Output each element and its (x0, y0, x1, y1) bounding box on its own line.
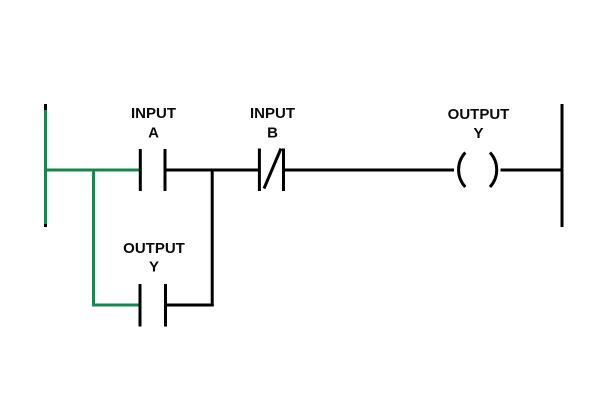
wire branch contact to riser (166, 304, 214, 307)
wire INPUT B to coil (284, 169, 455, 172)
wire branch to OUTPUT Y contact (green) (92, 304, 140, 307)
contact OUTPUT Y (branch seal-in) (140, 284, 166, 327)
svg-text:Y: Y (473, 125, 483, 142)
contact INPUT A (140, 149, 165, 191)
svg-text:A: A (148, 125, 159, 142)
label INPUT B (250, 105, 295, 142)
contact INPUT B (normally closed) (259, 149, 283, 192)
wire coil to right rail (501, 169, 564, 172)
wire branch riser to main rung (211, 170, 214, 307)
svg-text:Y: Y (149, 259, 159, 276)
left power rail energized highlight (green) (44, 110, 47, 224)
coil OUTPUT Y (459, 153, 497, 188)
wire rail to INPUT A (green) (44, 169, 140, 172)
label INPUT A (131, 105, 176, 142)
label OUTPUT Y (coil) (448, 106, 510, 142)
right power rail (561, 104, 564, 227)
svg-text:INPUT: INPUT (250, 105, 295, 122)
svg-text:OUTPUT: OUTPUT (123, 240, 185, 257)
left power rail (black under-layer) (44, 104, 47, 227)
svg-text:OUTPUT: OUTPUT (448, 106, 510, 123)
svg-text:B: B (267, 125, 278, 142)
svg-text:INPUT: INPUT (131, 105, 176, 122)
wire branch drop (green) (92, 169, 95, 306)
wire INPUT A to INPUT B (165, 169, 259, 172)
label OUTPUT Y (branch) (123, 240, 185, 276)
